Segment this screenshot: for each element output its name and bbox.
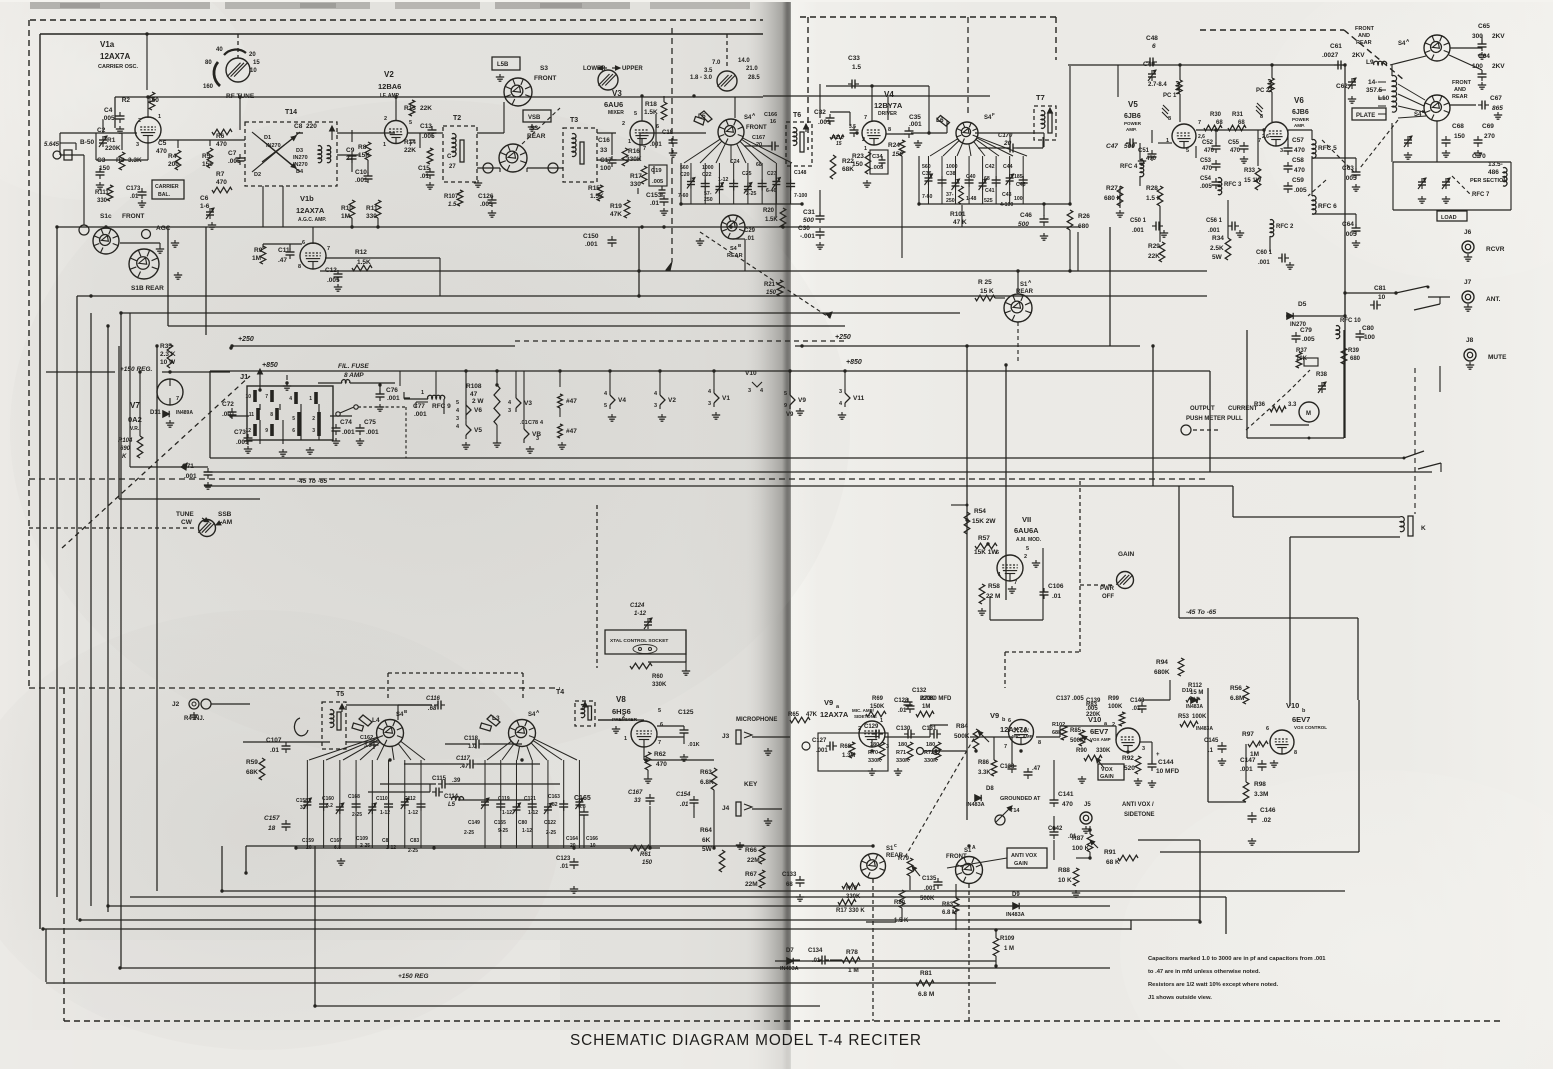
svg-text:R59: R59: [246, 759, 258, 766]
svg-text:5.645: 5.645: [44, 142, 60, 148]
svg-text:GROUNDED AT: GROUNDED AT: [1000, 796, 1041, 802]
svg-text:5: 5: [634, 111, 637, 117]
svg-text:IN483A: IN483A: [966, 802, 985, 808]
svg-text:22 M: 22 M: [986, 593, 1000, 600]
svg-text:S4: S4: [396, 712, 404, 718]
svg-text:RFC 2: RFC 2: [1276, 224, 1294, 230]
svg-text:47K: 47K: [610, 211, 622, 218]
svg-text:330: 330: [630, 181, 641, 188]
svg-text:7-100: 7-100: [794, 193, 807, 199]
svg-text:3.5: 3.5: [704, 68, 713, 74]
svg-text:V9: V9: [786, 412, 794, 418]
svg-text:100: 100: [1472, 63, 1483, 70]
svg-text:V4: V4: [884, 90, 894, 99]
svg-text:C110: C110: [376, 796, 388, 802]
svg-text:UPPER: UPPER: [622, 66, 643, 72]
svg-text:8: 8: [1168, 116, 1171, 122]
svg-text:C40: C40: [966, 174, 976, 180]
svg-text:2 W: 2 W: [472, 398, 484, 405]
svg-text:4: 4: [289, 396, 292, 402]
svg-text:C47: C47: [1106, 143, 1118, 150]
svg-text:C167: C167: [330, 838, 342, 844]
svg-text:.01: .01: [650, 200, 659, 207]
svg-text:C129: C129: [864, 724, 879, 730]
svg-text:68K: 68K: [246, 769, 258, 776]
svg-text:C5: C5: [158, 140, 167, 147]
svg-text:RFC 4: RFC 4: [1120, 164, 1138, 170]
svg-text:520: 520: [1124, 765, 1135, 772]
svg-text:C59: C59: [1292, 177, 1304, 184]
svg-text:C149: C149: [468, 820, 480, 826]
svg-text:1.5: 1.5: [448, 202, 457, 208]
svg-text:10: 10: [245, 394, 251, 400]
svg-text:690: 690: [120, 446, 131, 452]
svg-text:IN483A: IN483A: [1186, 704, 1203, 710]
svg-text:R67: R67: [745, 871, 757, 878]
svg-text:6AU6A: 6AU6A: [1014, 526, 1039, 535]
svg-text:5W: 5W: [1212, 254, 1223, 261]
svg-text:AND: AND: [1358, 33, 1370, 39]
svg-text:9: 9: [265, 428, 268, 434]
svg-text:9-25: 9-25: [498, 828, 508, 834]
svg-text:18: 18: [268, 825, 276, 832]
svg-text:C141: C141: [1058, 791, 1074, 798]
svg-text:C124: C124: [630, 603, 645, 609]
svg-text:3.3M: 3.3M: [1254, 791, 1268, 798]
svg-text:C80: C80: [1362, 325, 1374, 332]
svg-text:R99: R99: [1108, 696, 1120, 702]
svg-text:150: 150: [99, 165, 110, 172]
svg-text:C107: C107: [266, 737, 282, 744]
svg-text:S4: S4: [744, 115, 752, 121]
svg-text:C20: C20: [680, 172, 690, 178]
svg-text:1-12: 1-12: [380, 810, 390, 816]
svg-text:8 AMP: 8 AMP: [344, 372, 364, 379]
svg-text:C128: C128: [894, 698, 909, 704]
svg-text:FIL. FUSE: FIL. FUSE: [338, 363, 369, 370]
svg-text:2: 2: [384, 116, 387, 122]
svg-text:C166: C166: [764, 112, 777, 118]
svg-text:C78: C78: [528, 420, 538, 426]
svg-text:VOX AMP: VOX AMP: [1090, 737, 1111, 742]
svg-text:60 MFD: 60 MFD: [930, 696, 952, 702]
svg-text:R12: R12: [355, 249, 367, 256]
svg-text:27: 27: [449, 164, 456, 170]
svg-text:J1 shows outside view.: J1 shows outside view.: [1148, 995, 1212, 1001]
svg-text:7: 7: [265, 394, 268, 400]
svg-text:V9: V9: [798, 397, 806, 404]
svg-text:1-12: 1-12: [502, 810, 512, 816]
svg-text:6.8M: 6.8M: [1230, 695, 1244, 702]
svg-text:C76: C76: [386, 387, 398, 394]
svg-text:.001: .001: [585, 241, 598, 248]
svg-text:C64: C64: [1478, 53, 1490, 60]
svg-text:2: 2: [622, 714, 625, 720]
svg-text:T14: T14: [1010, 808, 1020, 814]
svg-text:10K: 10K: [1296, 356, 1308, 362]
svg-text:6JB6: 6JB6: [1292, 109, 1309, 116]
svg-text:7: 7: [327, 246, 330, 252]
svg-text:470: 470: [216, 141, 227, 148]
svg-text:C38: C38: [946, 171, 956, 177]
svg-text:MICROPHONE: MICROPHONE: [736, 717, 777, 723]
svg-text:CARRIER OSC.: CARRIER OSC.: [98, 64, 139, 70]
svg-text:C8: C8: [382, 838, 389, 844]
svg-text:7: 7: [643, 146, 646, 152]
svg-text:C56 1: C56 1: [1206, 218, 1223, 224]
svg-text:.001: .001: [818, 119, 831, 126]
svg-text:C65: C65: [1478, 23, 1490, 30]
svg-text:S4: S4: [730, 246, 738, 252]
svg-text:C7: C7: [228, 150, 237, 157]
svg-text:15K 1W: 15K 1W: [974, 549, 998, 556]
svg-text:AMP.: AMP.: [1126, 127, 1137, 132]
svg-text:CW: CW: [181, 519, 193, 526]
svg-text:C81: C81: [1374, 285, 1386, 292]
svg-text:6JB6: 6JB6: [1124, 113, 1141, 120]
svg-text:FRONT: FRONT: [746, 125, 767, 131]
svg-text:V3: V3: [524, 400, 532, 407]
svg-text:V9: V9: [990, 711, 999, 720]
svg-text:80: 80: [205, 60, 212, 66]
svg-text:B-50: B-50: [80, 139, 94, 146]
svg-text:V11: V11: [853, 395, 865, 402]
svg-text:+150 REG.: +150 REG.: [120, 366, 153, 373]
svg-text:Capacitors marked 1.0 to 3000: Capacitors marked 1.0 to 3000 are in pf …: [1148, 956, 1326, 962]
svg-text:.001: .001: [1132, 228, 1144, 234]
svg-text:V9: V9: [824, 698, 833, 707]
svg-text:180: 180: [870, 742, 879, 748]
svg-text:7: 7: [1198, 120, 1201, 126]
svg-text:C119: C119: [498, 796, 510, 802]
svg-text:865: 865: [1492, 105, 1503, 112]
svg-text:R69: R69: [872, 696, 884, 702]
svg-text:C147: C147: [1240, 757, 1256, 764]
svg-text:C74: C74: [340, 419, 352, 426]
svg-text:1.8 - 3.0: 1.8 - 3.0: [690, 75, 713, 81]
svg-text:3: 3: [1142, 746, 1145, 752]
svg-text:6.8 M: 6.8 M: [918, 991, 934, 998]
svg-text:+: +: [1156, 752, 1160, 758]
svg-text:R31: R31: [1232, 112, 1244, 118]
svg-text:68: 68: [1216, 120, 1223, 126]
svg-text:68 K: 68 K: [1106, 859, 1120, 866]
svg-text:6: 6: [292, 428, 295, 434]
svg-text:.001: .001: [909, 121, 922, 128]
svg-text:L9: L9: [1366, 59, 1374, 66]
svg-text:C50 1: C50 1: [1130, 218, 1147, 224]
svg-text:PC 2: PC 2: [1256, 88, 1270, 94]
svg-text:6K: 6K: [702, 837, 711, 844]
svg-text:S1B REAR: S1B REAR: [131, 285, 164, 292]
svg-text:15: 15: [253, 60, 260, 66]
svg-text:1: 1: [421, 390, 424, 396]
svg-text:150: 150: [1454, 133, 1465, 140]
svg-text:.005: .005: [1344, 175, 1357, 182]
svg-text:S4: S4: [528, 712, 536, 718]
svg-text:1: 1: [624, 736, 627, 742]
svg-text:T6: T6: [793, 112, 801, 119]
svg-text:2: 2: [312, 416, 315, 422]
svg-text:C44: C44: [1003, 164, 1013, 170]
svg-text:+250: +250: [835, 334, 851, 341]
svg-text:1-12: 1-12: [718, 177, 728, 183]
svg-text:C16: C16: [598, 137, 610, 144]
svg-text:16: 16: [770, 119, 776, 125]
svg-text:33: 33: [600, 147, 608, 154]
svg-text:14-: 14-: [1368, 79, 1377, 86]
svg-text:V4: V4: [618, 397, 626, 404]
svg-text:A: A: [972, 845, 976, 851]
svg-text:R111: R111: [95, 190, 109, 196]
svg-text:IN489A: IN489A: [176, 410, 193, 416]
svg-text:R92: R92: [1122, 755, 1134, 762]
svg-text:.47: .47: [460, 764, 469, 770]
svg-text:220: 220: [306, 123, 317, 130]
svg-text:PC 1: PC 1: [1163, 93, 1177, 99]
svg-text:1-48: 1-48: [966, 196, 976, 202]
svg-text:C170: C170: [998, 133, 1013, 139]
svg-text:10: 10: [250, 68, 257, 74]
svg-text:2.5K: 2.5K: [1210, 245, 1224, 252]
svg-text:6: 6: [1152, 43, 1156, 50]
svg-text:C58: C58: [1292, 157, 1304, 164]
svg-text:486: 486: [1488, 169, 1499, 176]
svg-text:.1: .1: [1208, 748, 1214, 754]
svg-text:C57: C57: [1292, 137, 1304, 144]
svg-text:3: 3: [708, 401, 711, 407]
svg-text:12: 12: [245, 428, 251, 434]
svg-text:#47: #47: [566, 428, 577, 435]
svg-text:R83: R83: [942, 902, 954, 908]
svg-text:2-25: 2-25: [352, 812, 362, 818]
svg-text:.005: .005: [1344, 231, 1357, 238]
svg-text:R90: R90: [1076, 748, 1088, 754]
svg-text:C12: C12: [325, 267, 337, 274]
svg-text:7: 7: [864, 115, 867, 121]
svg-text:.001: .001: [387, 395, 400, 402]
svg-text:C157: C157: [264, 815, 280, 822]
svg-text:1-12: 1-12: [408, 810, 418, 816]
svg-text:100: 100: [600, 165, 611, 172]
svg-text:.39: .39: [452, 778, 461, 784]
svg-text:C150: C150: [583, 233, 599, 240]
svg-text:C83: C83: [410, 838, 419, 844]
svg-text:6-46: 6-46: [766, 188, 776, 194]
svg-text:C64: C64: [1342, 221, 1354, 228]
svg-text:c: c: [894, 843, 897, 849]
svg-text:R56: R56: [1230, 685, 1242, 692]
svg-text:330K: 330K: [652, 682, 667, 688]
svg-text:IN483A: IN483A: [1006, 912, 1025, 918]
svg-text:R71: R71: [896, 750, 906, 756]
svg-text:6: 6: [302, 240, 305, 246]
svg-text:C 70: C 70: [1472, 153, 1486, 160]
svg-text:1M: 1M: [252, 255, 261, 262]
svg-text:14.0: 14.0: [738, 58, 750, 64]
svg-text:L5B: L5B: [497, 62, 509, 68]
svg-text:AGC: AGC: [156, 225, 171, 232]
svg-text:BAL.: BAL.: [158, 192, 171, 198]
svg-text:2-25: 2-25: [546, 830, 556, 836]
svg-text:2: 2: [858, 726, 861, 732]
svg-text:8: 8: [1294, 750, 1297, 756]
svg-text:D5: D5: [1298, 301, 1307, 308]
svg-text:R73: R73: [920, 696, 932, 702]
svg-text:C154: C154: [676, 792, 691, 798]
svg-text:REAR: REAR: [1356, 40, 1372, 46]
svg-text:330K: 330K: [1096, 748, 1111, 754]
svg-text:250: 250: [704, 197, 713, 203]
svg-text:100K: 100K: [1108, 704, 1123, 710]
svg-text:C164: C164: [566, 836, 578, 842]
svg-text:270: 270: [1484, 133, 1495, 140]
svg-text:D9: D9: [1012, 892, 1020, 898]
svg-text:6: 6: [1266, 726, 1269, 732]
svg-text:C49: C49: [1143, 61, 1155, 68]
svg-text:SIDETONE: SIDETONE: [1124, 812, 1155, 818]
svg-text:.47: .47: [1032, 766, 1041, 772]
svg-text:2KV: 2KV: [1492, 63, 1505, 70]
svg-text:V7: V7: [130, 401, 140, 410]
svg-text:R23: R23: [852, 153, 864, 160]
svg-text:K: K: [1421, 525, 1426, 532]
svg-text:500: 500: [803, 217, 814, 224]
svg-text:2-25: 2-25: [464, 830, 474, 836]
svg-text:MIXER: MIXER: [608, 110, 624, 116]
svg-text:500K: 500K: [954, 733, 970, 740]
svg-text:1: 1: [880, 718, 883, 724]
svg-text:C13: C13: [420, 123, 432, 130]
svg-text:1: 1: [864, 146, 867, 152]
svg-text:2.7-8.4: 2.7-8.4: [1148, 82, 1167, 88]
svg-text:C121: C121: [524, 796, 536, 802]
svg-text:3: 3: [312, 428, 315, 434]
svg-text:C122: C122: [544, 820, 556, 826]
svg-text:V.R.: V.R.: [130, 426, 140, 432]
svg-text:-45 To -65: -45 To -65: [297, 478, 327, 485]
svg-text:R33: R33: [1244, 168, 1256, 174]
svg-text:C62: C62: [1336, 83, 1348, 90]
svg-text:ANT.: ANT.: [1486, 296, 1501, 303]
svg-text:C73: C73: [234, 429, 246, 436]
svg-text:C145: C145: [1204, 738, 1219, 744]
svg-text:-.001: -.001: [800, 233, 815, 240]
svg-text:A.M. MOD.: A.M. MOD.: [1016, 537, 1042, 543]
svg-text:12AX7A: 12AX7A: [820, 710, 849, 719]
svg-text:C10: C10: [355, 169, 367, 176]
svg-text:1-12: 1-12: [528, 810, 538, 816]
svg-text:160: 160: [203, 84, 214, 90]
svg-text:D7: D7: [786, 948, 794, 954]
svg-text:R58: R58: [988, 583, 1000, 590]
svg-text:VSB: VSB: [528, 115, 541, 121]
svg-text:C15: C15: [418, 165, 430, 172]
svg-text:22K: 22K: [1148, 253, 1160, 260]
svg-text:C35: C35: [909, 114, 921, 121]
svg-text:R7: R7: [216, 171, 225, 178]
svg-text:C61: C61: [1330, 43, 1342, 50]
svg-text:C109: C109: [356, 836, 368, 842]
svg-text:21.0: 21.0: [746, 66, 758, 72]
svg-text:220K: 220K: [105, 145, 121, 152]
svg-text:R29: R29: [1148, 243, 1160, 250]
svg-text:C134: C134: [808, 948, 823, 954]
svg-text:C33: C33: [848, 55, 860, 62]
svg-text:4-100: 4-100: [1000, 202, 1013, 208]
svg-text:7: 7: [1004, 744, 1007, 750]
svg-text:R2: R2: [122, 97, 131, 104]
svg-text:D4: D4: [296, 169, 304, 175]
svg-text:R104: R104: [118, 438, 133, 444]
svg-text:22M: 22M: [747, 857, 760, 864]
svg-text:IN270: IN270: [293, 162, 308, 168]
svg-text:8: 8: [888, 127, 891, 133]
svg-text:1000: 1000: [946, 164, 958, 170]
svg-text:FRONT: FRONT: [534, 75, 556, 82]
svg-text:C41: C41: [985, 188, 995, 194]
svg-text:470: 470: [1202, 166, 1213, 172]
svg-text:180: 180: [926, 742, 935, 748]
svg-text:S1: S1: [1020, 282, 1028, 288]
svg-text:500K: 500K: [920, 896, 935, 902]
svg-text:C155: C155: [494, 820, 506, 826]
svg-text:+150 REG: +150 REG: [398, 973, 429, 980]
svg-text:IN483A: IN483A: [780, 966, 799, 972]
svg-text:S4: S4: [1398, 41, 1406, 47]
svg-text:M: M: [1306, 411, 1311, 417]
svg-text:J2: J2: [172, 701, 180, 708]
svg-text:3: 3: [456, 416, 459, 422]
svg-text:28.5: 28.5: [748, 75, 760, 81]
svg-text:8: 8: [270, 412, 273, 418]
svg-text:560: 560: [680, 165, 689, 171]
svg-text:.01: .01: [270, 747, 279, 754]
svg-text:GAIN: GAIN: [1100, 774, 1114, 780]
svg-text:T3: T3: [570, 117, 578, 124]
svg-text:AMP.: AMP.: [1294, 123, 1305, 128]
svg-text:R19: R19: [610, 203, 622, 210]
svg-text:C53: C53: [1200, 158, 1212, 164]
svg-text:R20: R20: [763, 208, 775, 214]
svg-text:AND: AND: [1454, 87, 1466, 93]
svg-text:SSB: SSB: [218, 511, 232, 518]
svg-text:REAR: REAR: [1452, 94, 1468, 100]
svg-text:5: 5: [456, 400, 459, 406]
svg-text:82: 82: [552, 802, 558, 808]
svg-text:1 M: 1 M: [848, 967, 859, 974]
svg-text:.47: .47: [278, 257, 287, 264]
svg-text:-45 To -65: -45 To -65: [1186, 609, 1216, 616]
svg-text:1 M: 1 M: [1004, 946, 1014, 952]
svg-text:.005: .005: [1200, 184, 1212, 190]
svg-text:R72: R72: [924, 750, 934, 756]
svg-text:C132: C132: [912, 688, 927, 694]
svg-text:R30: R30: [1210, 112, 1222, 118]
svg-text:C36: C36: [922, 171, 932, 177]
svg-text:.01: .01: [420, 173, 429, 180]
svg-text:1: 1: [158, 114, 161, 120]
svg-text:15K 2W: 15K 2W: [972, 518, 996, 525]
svg-text:C142: C142: [1048, 826, 1063, 832]
svg-text:.005: .005: [480, 201, 493, 208]
svg-text:47 K: 47 K: [953, 219, 967, 226]
svg-text:L4: L4: [372, 717, 380, 724]
svg-text:IN270: IN270: [293, 155, 308, 161]
svg-text:+850: +850: [846, 359, 862, 366]
svg-text:250: 250: [946, 198, 955, 204]
svg-text:150: 150: [766, 290, 777, 296]
